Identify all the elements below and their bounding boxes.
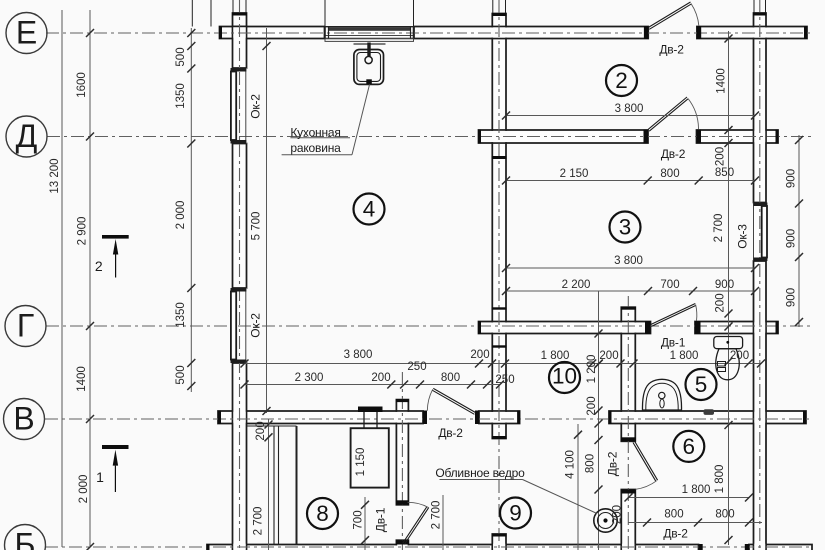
2700 dim line room 9: [442, 495, 444, 550]
svg-text:4 100: 4 100: [565, 450, 577, 479]
svg-text:800: 800: [664, 509, 683, 521]
pouring bucket label leader: [440, 480, 598, 514]
door jamb E-door right: [697, 26, 701, 39]
svg-text:1 800: 1 800: [670, 350, 699, 362]
washbasin: [642, 379, 681, 410]
svg-text:Дв-1: Дв-1: [661, 336, 686, 350]
door jamb V-door left: [423, 411, 427, 425]
axis Д: [47, 136, 812, 138]
door leaf G-door (Дв-1 room3): [651, 304, 697, 327]
window OK-2 upper (left wall): [231, 68, 247, 144]
dim line door in wall B: [629, 522, 763, 524]
section marker 1: [102, 445, 129, 492]
door jamb G-door right: [695, 321, 701, 334]
vertical axis: wall 2: [401, 372, 403, 550]
overall dim line 13200: [61, 10, 63, 547]
axis circle Е: [4, 13, 48, 550]
window OK-3 (right wall): [754, 203, 768, 262]
thin wall continuation above E: right wall: [753, 0, 755, 13]
svg-text:3: 3: [619, 215, 632, 240]
door leaf wall4-door (Дв-2 rooms 9/6): [633, 442, 658, 490]
axis Г: [46, 325, 812, 327]
right exterior wall: [754, 13, 767, 27]
window reveal lines above top window: [324, 0, 326, 27]
tick 4100 line: [574, 431, 582, 439]
ticks dim row above V: [241, 360, 249, 368]
svg-text:Дв-2: Дв-2: [605, 451, 619, 476]
crown cap: wall3 above B: [492, 534, 507, 537]
svg-text:2 900: 2 900: [77, 217, 89, 246]
drain mark on wall V below toilet: [704, 409, 715, 415]
svg-text:2 700: 2 700: [431, 501, 443, 530]
svg-text:3 800: 3 800: [614, 255, 643, 267]
crown cap: wall3 above G: [492, 307, 507, 309]
door leaf D-door (Дв-2 room2/3): [648, 97, 699, 131]
door jamb D-door right: [697, 130, 702, 144]
window OK-1 in E wall (kitchen): [325, 27, 415, 42]
svg-text:13 200: 13 200: [49, 158, 61, 193]
crown cap: G wall right end: [776, 321, 779, 334]
dim line room 3 width: [506, 267, 755, 269]
svg-text:Е: Е: [16, 15, 37, 51]
right inner vertical dim line: [728, 31, 730, 545]
svg-text:800: 800: [715, 509, 734, 521]
door jamb B-door left: [699, 544, 703, 550]
svg-text:800: 800: [441, 372, 460, 384]
crown cap: wall3 below G: [492, 345, 507, 347]
crown cap: wall2 stub above V: [396, 399, 409, 402]
svg-text:1350: 1350: [175, 83, 187, 109]
wall G (interior wall on axis Г): [479, 322, 651, 334]
crown cap: E wall left end: [219, 26, 222, 39]
svg-text:900: 900: [786, 169, 798, 188]
svg-text:2 700: 2 700: [713, 214, 725, 243]
ticks dim row 2: [241, 381, 249, 389]
door jamb wall4-door top: [621, 437, 636, 441]
kitchen sink: [354, 43, 386, 85]
left window chain dim line: [190, 28, 192, 392]
svg-text:200: 200: [255, 421, 267, 440]
svg-text:Дв-1: Дв-1: [374, 507, 388, 532]
crown cap: D wall left end: [478, 130, 481, 144]
wall V (wall on axis В): [218, 411, 423, 424]
svg-text:Дв-2: Дв-2: [663, 527, 688, 541]
svg-text:Г: Г: [17, 308, 34, 344]
ticks left window chain: [187, 29, 195, 37]
svg-text:2 150: 2 150: [560, 168, 589, 180]
svg-text:700: 700: [660, 279, 679, 291]
right outer vertical dim line (window OK-3): [798, 135, 800, 327]
crown cap: E wall right end: [804, 26, 807, 39]
svg-text:800: 800: [660, 168, 679, 180]
svg-text:3 800: 3 800: [344, 349, 373, 361]
svg-text:200: 200: [371, 372, 390, 384]
partition wall 3 (long interior wall): [492, 14, 506, 27]
ticks room3 lower chain: [502, 287, 510, 295]
svg-text:1 800: 1 800: [541, 350, 570, 362]
svg-text:1 150: 1 150: [355, 448, 367, 477]
svg-text:200: 200: [715, 147, 727, 166]
dim line room 3 door chain: [506, 180, 755, 182]
svg-text:1400: 1400: [76, 366, 88, 392]
svg-text:200: 200: [586, 396, 598, 415]
svg-text:900: 900: [786, 229, 798, 248]
left axis-step dim line: [89, 10, 91, 547]
vertical axis: wall 4: [627, 296, 629, 550]
crown cap: D wall right end: [776, 130, 779, 144]
svg-text:5 700: 5 700: [251, 212, 263, 241]
700 dim line door Дв-1: [364, 497, 366, 550]
window OK-2 lower (left wall): [231, 288, 247, 363]
thin wall continuation above E: wall 3: [492, 0, 494, 14]
svg-text:1350: 1350: [175, 302, 187, 328]
window opening clearings: [325, 27, 415, 39]
svg-text:Б: Б: [15, 527, 36, 550]
room number circles: [307, 65, 717, 529]
crown cap: V wall left end: [218, 411, 221, 425]
ticks right outer line: [795, 136, 803, 144]
svg-text:2 300: 2 300: [295, 372, 324, 384]
svg-text:850: 850: [715, 167, 734, 179]
dim line room 6 width: [629, 497, 750, 499]
junction clearings: [233, 27, 245, 37]
partition wall 4 (rooms 10,5 / 9,6): [621, 307, 635, 321]
pouring bucket: [594, 509, 617, 532]
axis Б: [45, 546, 812, 548]
svg-text:6: 6: [683, 434, 696, 459]
crown cap: G wall left end: [478, 321, 481, 334]
svg-text:200: 200: [612, 505, 624, 524]
svg-text:Ок-2: Ок-2: [249, 94, 263, 119]
ticks axis-step line: [86, 29, 94, 37]
door jamb wall4-door bottom: [621, 490, 636, 494]
svg-text:1400: 1400: [716, 68, 728, 94]
ticks 700 door: [361, 501, 369, 509]
svg-text:200: 200: [730, 350, 749, 362]
door jamb wall2-door bottom: [396, 540, 409, 544]
svg-text:5: 5: [695, 372, 708, 397]
5700 dim line room 4: [266, 28, 268, 413]
toilet: [714, 337, 743, 380]
door leaf wall2-door (Дв-1 rooms 8/9): [403, 502, 429, 544]
ticks 5700 line: [263, 42, 271, 50]
crown cap: V wall segment3 left end: [609, 411, 612, 425]
svg-text:9: 9: [509, 501, 522, 526]
axis В: [45, 418, 812, 420]
ticks room3 door chain: [502, 177, 510, 185]
svg-text:Кухонная: Кухонная: [290, 126, 340, 140]
ticks right inner line: [725, 35, 733, 43]
ticks door wall B: [643, 519, 651, 527]
svg-text:2 000: 2 000: [78, 475, 90, 504]
svg-text:Дв-2: Дв-2: [661, 147, 686, 161]
svg-text:4: 4: [363, 197, 376, 222]
partition wall 2 (rooms 8/9): [396, 400, 408, 411]
4100 dim line: [577, 424, 579, 550]
door jamb V-door right: [475, 411, 479, 425]
svg-text:10: 10: [552, 364, 577, 389]
svg-text:200: 200: [599, 350, 618, 362]
crown cap: wall4 above G: [621, 307, 636, 310]
inner face line of wall V left part: [247, 425, 297, 427]
svg-text:Дв-2: Дв-2: [659, 43, 684, 57]
crown cap: V wall right end: [803, 411, 806, 425]
svg-text:Ок-3: Ок-3: [736, 224, 750, 249]
1200/200/800 dim line: [598, 291, 600, 550]
thin wall continuation above E: left wall: [232, 0, 234, 13]
svg-text:8: 8: [316, 501, 329, 526]
svg-text:900: 900: [715, 279, 734, 291]
vertical axis: left wall: [239, 0, 241, 550]
crown cap: wall3 below D: [492, 156, 507, 159]
door jamb wall2-door top: [396, 500, 409, 505]
crown cap: V wall opening end (x519.6): [517, 411, 520, 425]
crown cap: left wall top: [232, 13, 247, 16]
dim line room 2: [506, 115, 755, 117]
ticks room3 width: [502, 264, 510, 272]
svg-text:1: 1: [96, 469, 104, 485]
section marker 2: [102, 235, 129, 278]
crown cap: right wall top: [753, 13, 767, 16]
svg-text:200: 200: [470, 349, 489, 361]
svg-text:2: 2: [95, 258, 103, 274]
door jamb E-door left: [644, 26, 648, 39]
axis E: [46, 32, 812, 34]
svg-text:2: 2: [615, 68, 628, 93]
vertical axis: wall 3: [498, 0, 500, 550]
svg-text:2 200: 2 200: [562, 279, 591, 291]
svg-text:раковина: раковина: [290, 141, 341, 155]
svg-text:1 200: 1 200: [586, 355, 598, 384]
svg-text:200: 200: [715, 293, 727, 312]
dim row above wall V: [245, 363, 762, 365]
svg-text:500: 500: [175, 47, 187, 66]
svg-text:800: 800: [585, 454, 597, 473]
door leaf V-door (Дв-2 room4/9): [427, 388, 475, 414]
ticks room2: [502, 112, 510, 120]
ticks room6 width: [625, 494, 633, 502]
ticks 200/2700 room8: [265, 421, 273, 429]
svg-text:500: 500: [175, 365, 187, 384]
dim line room 3 lower door chain: [506, 290, 755, 292]
200/2700 dim line room 8: [268, 419, 270, 550]
porch lines above wall E: [191, 0, 193, 27]
svg-text:В: В: [13, 401, 34, 437]
wall D (interior wall on axis Д, rooms 2/3): [479, 130, 649, 143]
svg-text:3 800: 3 800: [615, 103, 644, 115]
svg-text:Дв-2: Дв-2: [438, 426, 463, 440]
kitchen sink label leader: [282, 85, 370, 155]
svg-text:2 700: 2 700: [252, 507, 264, 536]
left exterior wall: [233, 13, 247, 27]
svg-text:900: 900: [786, 288, 798, 307]
vertical axis: right wall: [759, 0, 761, 550]
svg-text:Обливное ведро: Обливное ведро: [435, 466, 525, 480]
door jamb B-door right: [745, 544, 749, 550]
dim row 2 above wall V: [245, 384, 501, 386]
svg-text:Д: Д: [16, 118, 38, 154]
svg-text:700: 700: [353, 510, 365, 529]
svg-text:1 800: 1 800: [714, 465, 726, 494]
svg-text:250: 250: [407, 361, 426, 373]
svg-text:Ок-2: Ок-2: [249, 313, 263, 338]
ticks 1200/200/800 line: [595, 330, 603, 338]
svg-text:2 000: 2 000: [175, 201, 187, 230]
svg-text:1 800: 1 800: [682, 484, 711, 496]
crown cap: B wall left end: [207, 544, 210, 550]
crown cap: wall3 stub below V: [492, 436, 507, 439]
wall B (bottom exterior wall, axis Б): [207, 545, 699, 550]
door jamb G-door left: [645, 321, 651, 334]
stove (furnace) room 8: [351, 407, 389, 488]
partition wall 5 (thin partition room 8): [273, 426, 275, 545]
svg-text:1600: 1600: [76, 72, 88, 98]
door jamb D-door left: [644, 130, 649, 144]
svg-text:250: 250: [495, 374, 514, 386]
door leaf E-door (Дв-2 to porch): [648, 2, 699, 29]
wall E (top exterior wall, axis E): [220, 27, 325, 39]
crown cap: wall 3 top: [492, 13, 507, 16]
